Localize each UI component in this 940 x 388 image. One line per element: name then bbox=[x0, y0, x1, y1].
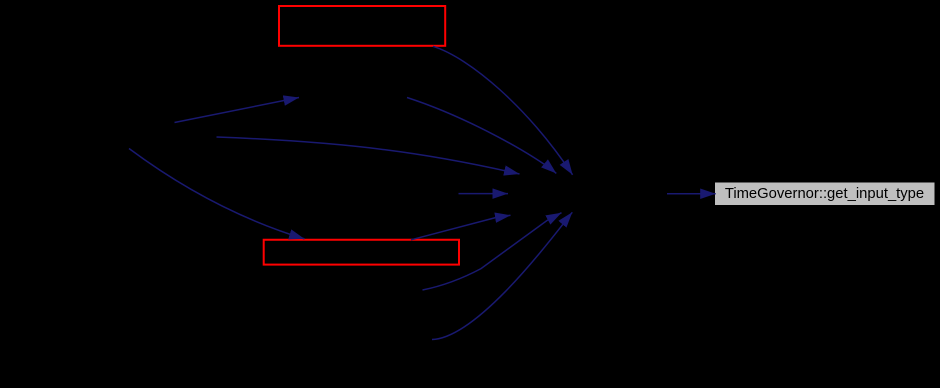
svg-text:TimeGovernor::get_input_type: TimeGovernor::get_input_type bbox=[725, 186, 924, 202]
